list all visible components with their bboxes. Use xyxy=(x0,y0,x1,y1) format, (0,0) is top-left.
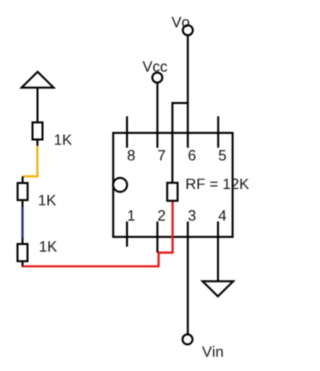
wire R1 bottom lead xyxy=(36,140,38,147)
blue wire R2 to R3 xyxy=(21,207,23,239)
terminal Vcc circle xyxy=(152,73,162,83)
pin 1 stub xyxy=(126,222,128,247)
wire R2 top lead xyxy=(22,176,24,183)
wire R2 bottom lead xyxy=(22,200,24,207)
wire antenna to R1 xyxy=(37,88,39,122)
wire R3 top lead xyxy=(22,238,24,244)
pin number 1 xyxy=(128,210,134,220)
wire R3 bottom lead xyxy=(22,261,24,267)
yellow wire R1 to R2 xyxy=(23,146,38,177)
ground symbol xyxy=(203,281,234,296)
pin number 7 xyxy=(158,150,165,160)
pin number 6 xyxy=(189,150,196,161)
pin number 4 xyxy=(219,210,227,220)
resistor R2 1K xyxy=(18,183,28,200)
terminal Vo circle xyxy=(183,25,193,35)
pin 2 stub xyxy=(156,222,158,253)
pin number 2 xyxy=(158,210,165,221)
pin 6 wire from Vo xyxy=(187,36,189,148)
label Vin xyxy=(202,346,223,357)
resistor RF 12K inside U1 xyxy=(167,183,177,201)
R3 value label 1K xyxy=(40,241,57,251)
pin 8 stub xyxy=(126,116,128,147)
RF value label xyxy=(187,179,249,190)
pin 7 wire from Vcc xyxy=(156,83,158,148)
label Vcc xyxy=(143,61,168,71)
pin number 8 xyxy=(128,150,135,161)
pin 3 wire to Vin xyxy=(187,222,189,335)
R2 value label 1K xyxy=(39,195,56,205)
resistor R3 1K xyxy=(18,244,28,261)
wire pin6 to RF jog xyxy=(172,103,187,182)
label Vo xyxy=(172,17,190,27)
terminal Vin circle xyxy=(183,334,193,344)
resistor R1 1K xyxy=(33,122,43,139)
pin 5 stub xyxy=(217,116,219,147)
pin number 3 xyxy=(188,210,195,221)
red wire R3 to pin 2 and RF xyxy=(23,201,173,266)
pin 1 indicator circle on U1 xyxy=(113,178,127,192)
antenna up-arrow terminal xyxy=(22,72,54,88)
pin 4 wire to ground xyxy=(217,222,219,282)
R1 value label 1K xyxy=(55,135,72,145)
op-amp IC U1 body (8-pin DIP outline) xyxy=(113,133,232,237)
pin number 5 xyxy=(219,150,226,160)
